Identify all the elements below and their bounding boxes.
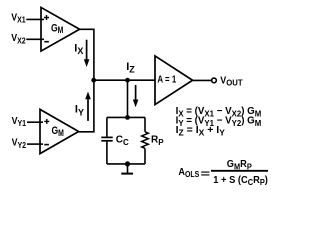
current arrow IX — [84, 40, 90, 67]
wire node A to buffer — [94, 79, 156, 81]
output terminal circle — [212, 78, 217, 83]
RC bottom junction dot — [125, 161, 130, 166]
svg-text:A = 1: A = 1 — [157, 74, 176, 86]
wire VX2 to amp — [26, 38, 44, 40]
svg-text:1 + S (CCRP): 1 + S (CCRP) — [213, 175, 268, 187]
node B junction dot — [125, 78, 130, 83]
wire VX1 to amp — [26, 18, 44, 20]
ground — [121, 164, 133, 174]
wire VY1 to amp — [27, 121, 43, 123]
svg-text:=: = — [201, 169, 211, 180]
svg-text:VOUT: VOUT — [220, 76, 243, 88]
capacitor CC — [101, 117, 112, 163]
wire RC bottom rail — [107, 163, 145, 165]
RC top junction dot — [125, 115, 130, 120]
wire buffer output — [193, 79, 212, 81]
wire VY2 to amp — [27, 143, 43, 145]
wire bottom amp output to node A — [79, 80, 94, 132]
op-amp U2 transconductance GM (Y channel) — [40, 109, 79, 153]
op-amp U3 buffer A=1 — [155, 56, 193, 105]
wire top amp output to node A — [80, 29, 94, 80]
current arrow IZ — [133, 85, 139, 107]
equation AOLS fraction bar — [211, 170, 268, 172]
current arrow IY — [85, 92, 91, 121]
svg-text:GM: GM — [51, 22, 63, 35]
resistor RP — [142, 117, 149, 163]
op-amp U1 transconductance GM (X channel) — [41, 7, 80, 51]
wire RC top rail — [107, 116, 145, 118]
wire node B down to RC network — [127, 80, 129, 117]
svg-text:GM: GM — [52, 125, 64, 138]
node A junction dot — [91, 78, 96, 83]
